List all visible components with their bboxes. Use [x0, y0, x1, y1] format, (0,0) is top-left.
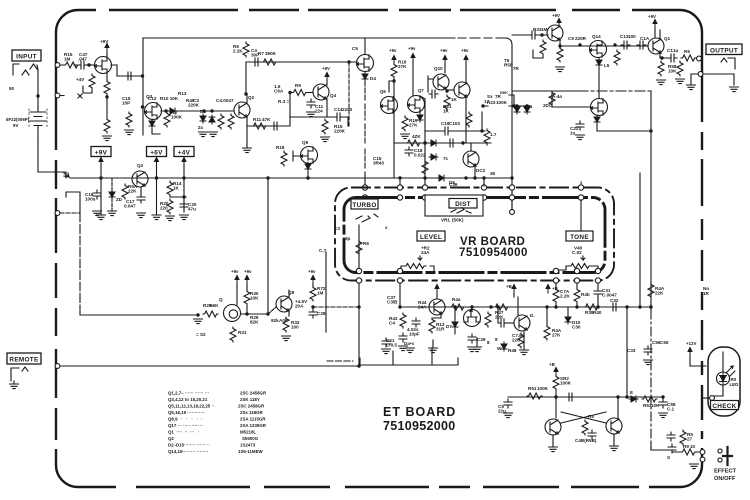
svg-text:7c: 7c [443, 156, 449, 161]
junction Q10 Q11 [445, 89, 448, 92]
label box REMOTE [7, 353, 41, 364]
diode D5 [437, 175, 446, 181]
label box DIST [449, 199, 477, 209]
svg-text:ON/OFF: ON/OFF [714, 476, 736, 482]
svg-text:C5: C5 [352, 46, 358, 51]
pad tone bot2 a [574, 268, 579, 273]
svg-text:+4V: +4V [178, 150, 191, 157]
wire Q11 collector [465, 63, 467, 82]
diode D5b [305, 162, 311, 171]
diode D14 [596, 58, 602, 67]
junction remote turbo [357, 364, 360, 367]
label box CHECK [711, 401, 739, 410]
svg-text:100u: 100u [85, 197, 96, 202]
svg-text:C33: C33 [627, 348, 636, 353]
wire Q8 collector [288, 290, 290, 297]
svg-text:100K: 100K [496, 100, 508, 105]
label box +6V [147, 147, 167, 157]
svg-text:C3: C3 [334, 226, 340, 231]
svg-text:+9V: +9V [100, 39, 109, 44]
capacitor C2 [125, 72, 134, 80]
wire Q2 emitter link [247, 117, 290, 126]
supply arrow q22 [554, 368, 558, 377]
capacitor C29 [468, 334, 476, 343]
wire r47 stub [546, 307, 548, 325]
wire +4V hook [83, 86, 92, 93]
capacitor C38 [412, 318, 420, 327]
junction out row b [613, 43, 616, 46]
wire q18 stub [471, 307, 473, 310]
junction tone b [575, 305, 578, 308]
svg-text:EFFECT: EFFECT [714, 469, 737, 475]
resistor R10 [228, 114, 234, 129]
junction mid row b [210, 109, 213, 112]
capacitor C20 [180, 201, 188, 210]
resistor R35 [614, 50, 620, 65]
svg-text:L5: L5 [604, 63, 610, 68]
svg-text:me:: me: [500, 90, 509, 95]
pad dist left a [422, 185, 427, 190]
junction out row a [578, 43, 581, 46]
svg-text:27K: 27K [409, 123, 418, 128]
node output contact b [698, 72, 703, 77]
resistor R31 [230, 327, 236, 342]
svg-text:R4a: R4a [452, 297, 461, 302]
svg-text:C4: C4 [389, 321, 395, 326]
svg-text:2Sx 118GR: 2Sx 118GR [240, 410, 264, 415]
wire pot b [246, 283, 248, 290]
wire +4V column [183, 164, 185, 212]
svg-text:1M: 1M [317, 291, 324, 296]
wire long vertical output net [650, 91, 652, 310]
transistor Q7 [408, 96, 425, 113]
wire emitter row [290, 116, 334, 118]
wire Q4 base [308, 92, 313, 94]
svg-text:R5: R5 [684, 49, 690, 54]
svg-text:2200: 2200 [342, 107, 353, 112]
ground row e [520, 350, 529, 355]
svg-text:REMOTE: REMOTE [9, 357, 39, 364]
svg-text:24A: 24A [418, 305, 427, 310]
wire Q5 drain [364, 38, 366, 55]
ground C11 [307, 112, 316, 117]
resistor R24 [406, 140, 421, 146]
junction q23 [616, 395, 619, 398]
svg-text:TURBO: TURBO [352, 202, 376, 209]
pad tone bot3 b [595, 278, 600, 283]
capacitor C16 [93, 190, 101, 199]
svg-text:7510952000: 7510952000 [383, 419, 456, 433]
diode D12 [501, 342, 507, 351]
output jack J2 [721, 58, 735, 69]
wire d11 stub [567, 307, 569, 315]
wire row e stub [523, 332, 525, 350]
wire Q9 gate [293, 151, 300, 161]
svg-text:2SA 1115GR: 2SA 1115GR [240, 417, 266, 422]
svg-text:Q1,2,7− ······ ······ ···: Q1,2,7− ······ ······ ··· [168, 391, 209, 396]
wire ET outline left edge [142, 38, 144, 135]
svg-text:7R: 7R [513, 66, 520, 71]
resistor R9 [218, 114, 224, 129]
wire tone drop b [576, 284, 578, 308]
junction tone c [596, 305, 599, 308]
svg-text:R9: R9 [683, 444, 689, 449]
pad dist wiper b [509, 195, 514, 200]
capacitor C44 [644, 346, 652, 355]
supply arrow +6V [155, 158, 159, 167]
supply arrow led [688, 348, 692, 357]
wire Q4 emitter [326, 99, 328, 117]
wire row c stub [432, 340, 434, 348]
wire bus hook tick [64, 173, 69, 177]
svg-text:C103: C103 [449, 121, 460, 126]
diode D13 [629, 396, 638, 402]
svg-text:C/0.5: C/0.5 [386, 343, 397, 348]
capacitor C32 [610, 303, 619, 311]
ground q23 emitter [610, 446, 619, 451]
node dist wiper contact [510, 210, 515, 215]
resistor R19 [402, 116, 408, 131]
battery BT1 6F22 9V [30, 108, 46, 140]
wire Q1 out to board edge [111, 65, 142, 76]
wire remote gnd stub [13, 381, 15, 384]
svg-text:Q9: Q9 [302, 140, 309, 145]
resistor R41 [356, 240, 362, 255]
svg-text:24A: 24A [421, 250, 430, 255]
pad level bot b [397, 278, 402, 283]
resistor R26 [422, 160, 428, 175]
svg-text:(50K): (50K) [452, 218, 464, 223]
node bus B supply rail [70, 177, 512, 179]
transistor Q19 [514, 315, 530, 331]
svg-text:x: x [385, 225, 388, 230]
wire sw line [651, 443, 672, 450]
wire turbo to foot [358, 284, 360, 367]
wire Q2 emitter [247, 117, 252, 126]
svg-text:W: W [497, 346, 502, 351]
junction mid row a [202, 109, 205, 112]
ground D3 [199, 132, 208, 137]
wire input tip to C1 [60, 64, 78, 66]
svg-text:27K: 27K [552, 333, 561, 338]
wire sw line b [672, 451, 700, 453]
junction Q9 bus [306, 176, 309, 179]
svg-text:R5: R5 [588, 414, 594, 419]
resistor R45 [429, 318, 435, 333]
ground C16 [93, 211, 102, 216]
capacitor C10 [271, 122, 280, 130]
svg-text:1u: 1u [570, 131, 576, 136]
junction q13 emitter node [558, 44, 561, 47]
wire Q12 emitter [474, 165, 476, 178]
svg-text:LED: LED [730, 382, 739, 387]
svg-text:2x: 2x [198, 125, 204, 130]
wire pot a [236, 283, 238, 305]
svg-text:47K: 47K [262, 117, 271, 122]
wire dist wiper stub [511, 200, 513, 209]
junction board edge 2 [141, 105, 144, 108]
svg-text:0.022: 0.022 [414, 153, 426, 158]
svg-text:D4: D4 [370, 76, 376, 81]
node output contact a [697, 56, 702, 61]
pad dist left b [422, 195, 427, 200]
svg-text:27: 27 [687, 437, 693, 442]
remote jack J3 [11, 367, 28, 381]
resistor R51 [648, 283, 654, 298]
ground D4 [209, 132, 218, 137]
svg-text:VR1: VR1 [441, 218, 450, 223]
wire Q1 drain [106, 52, 108, 57]
svg-text:Q2: Q2 [168, 436, 174, 441]
svg-text:1K: 1K [443, 109, 450, 114]
capacitor C41 [566, 393, 575, 401]
svg-text:LEVEL: LEVEL [420, 234, 442, 241]
resistor R33 [540, 40, 546, 55]
junction level feed [398, 176, 401, 179]
svg-text:D.: D. [530, 313, 535, 318]
svg-text:TONE: TONE [570, 234, 589, 241]
transistor Q23 [606, 418, 622, 434]
junction w131 [480, 129, 483, 132]
svg-text:R18: R18 [276, 145, 285, 150]
wire bottom dash stub [327, 360, 353, 362]
resistor R9b [292, 90, 307, 96]
ground remote jack [10, 384, 19, 389]
wire out row [560, 45, 648, 47]
wire main lower signal [400, 306, 651, 308]
resistor R21 [444, 95, 450, 110]
transistor Q9 [301, 147, 318, 164]
svg-text:224: 224 [315, 109, 323, 114]
supply arrow pot b [245, 276, 249, 285]
svg-text:C6A: C6A [274, 89, 284, 94]
wire q23 emitter [613, 434, 615, 446]
DIST sub-board rect [425, 195, 483, 216]
junction clip row [461, 141, 464, 144]
svg-text:R58: R58 [504, 63, 513, 68]
junction w106 a [481, 104, 484, 107]
node input tip contact [55, 63, 60, 68]
svg-text:100: 100 [628, 34, 636, 39]
capacitor C1 [78, 61, 87, 69]
svg-text:36: 36 [490, 171, 496, 176]
ground R37 [676, 79, 685, 84]
svg-text:ET BOARD: ET BOARD [383, 405, 456, 419]
capacitor C18 [405, 147, 413, 156]
junction long vert [266, 312, 269, 315]
wire link w106 [483, 95, 514, 106]
svg-text:Q10: Q10 [434, 66, 443, 71]
wire flip cross a [561, 412, 606, 423]
junction q15 emitter [660, 56, 663, 59]
capacitor C24 [637, 41, 646, 49]
wire q17 collector [436, 292, 438, 298]
wire Q10 emitter link [446, 89, 454, 91]
svg-text:R31: R31 [238, 330, 247, 335]
wire flip cross b [561, 412, 606, 423]
svg-text:2SK 118Y: 2SK 118Y [240, 397, 260, 402]
svg-text:R40: R40 [593, 310, 602, 315]
svg-text:10: 10 [690, 444, 696, 449]
wire et low signal [508, 396, 663, 398]
junction dist feed [423, 141, 426, 144]
transistor Q2 [234, 102, 250, 118]
wire q15 emitter node [660, 53, 668, 58]
resistor R17 [104, 80, 110, 95]
capacitor C19 [442, 127, 451, 135]
ground pot left [194, 319, 203, 324]
svg-text:C.02: C.02 [572, 250, 582, 255]
wire q22 emitter [552, 435, 554, 447]
pad level top b [397, 195, 402, 200]
resistor R39 [549, 91, 555, 106]
junction q13 base [540, 33, 543, 36]
wire tone drop a [555, 284, 557, 308]
wire tone return vertical [639, 173, 641, 307]
svg-text:27K: 27K [398, 64, 407, 69]
wire feedback dashes [348, 62, 350, 126]
svg-text:C4B(R5B): C4B(R5B) [575, 438, 597, 443]
wire mute column [79, 213, 81, 315]
junction buffer out [649, 129, 652, 132]
resistor R54 [122, 184, 128, 199]
ground q22 emitter [549, 447, 558, 452]
svg-text:Q2: Q2 [137, 163, 144, 168]
resistor R11 [252, 123, 267, 129]
svg-text:A0k: A0k [279, 318, 288, 323]
diode D11 [565, 315, 571, 324]
svg-text:C28: C28 [317, 311, 326, 316]
svg-text:D8: D8 [200, 109, 206, 114]
capacitor C42 [588, 430, 596, 439]
ground C40 [504, 413, 513, 418]
junction low node [182, 195, 185, 198]
junction bus 512 [510, 176, 513, 179]
wire D16 stub [111, 178, 113, 211]
resistor R46s series [494, 304, 509, 310]
wire q16 gate [552, 91, 590, 107]
resistor R53 [553, 375, 559, 390]
svg-text:8: 8 [495, 337, 498, 342]
wire low node [170, 196, 186, 198]
pad tone bot1 a [553, 268, 558, 273]
resistor R16b [391, 63, 397, 78]
svg-text:+9v: +9v [231, 269, 239, 274]
wire bottom link u [360, 349, 458, 365]
svg-text:1S5-11MEW: 1S5-11MEW [238, 449, 264, 454]
svg-text:22K: 22K [655, 291, 664, 296]
svg-text:Q1: Q1 [664, 36, 671, 41]
svg-text:C1A: C1A [640, 36, 650, 41]
label box OUTPUT [706, 44, 742, 55]
resistor R38 [681, 55, 696, 61]
ground C44 [644, 360, 653, 365]
svg-text:R.3 =: R.3 = [278, 99, 289, 104]
LED arrows [726, 366, 735, 376]
ground +9V column [97, 215, 106, 220]
input jack J1 [13, 64, 38, 75]
svg-text:C12: C12 [148, 96, 157, 101]
transistor Q5 [357, 55, 374, 72]
EFFECT switch S4 [718, 449, 722, 453]
resistor R46 [485, 312, 491, 327]
svg-text:+9v: +9v [461, 48, 469, 53]
svg-text:220K: 220K [334, 129, 346, 134]
transistor Q16 [591, 99, 608, 116]
wire S1 hook [66, 192, 80, 213]
capacitor C17 [137, 194, 145, 203]
wire w131 up [481, 112, 483, 131]
junction r46 [489, 305, 492, 308]
transistor Q6 [381, 97, 398, 114]
resistor R32 [283, 317, 289, 332]
wire Q4 collector [326, 80, 328, 85]
junction gate Q1 [87, 63, 90, 66]
resistor R16 [89, 74, 95, 89]
svg-text:Q17 ··· ····· ····· ··: Q17 ··· ····· ····· ·· [168, 423, 203, 428]
ground R56 [166, 216, 175, 221]
wire mid row [161, 110, 234, 112]
wire ring stub [60, 94, 82, 98]
ground +6V column [152, 215, 161, 220]
ground Q1 source [103, 136, 112, 141]
diode D7 [429, 140, 438, 146]
wire chain vertical right [650, 310, 652, 450]
svg-text:3R43: 3R43 [373, 161, 384, 166]
resistor R25 [484, 129, 490, 144]
pad tone bot3 a [595, 268, 600, 273]
svg-text:E: E [630, 390, 633, 395]
svg-text:C55: C55 [660, 340, 669, 345]
diode D3 [200, 114, 206, 123]
node sw contact b [700, 457, 705, 462]
resistor R18 [281, 151, 287, 166]
svg-text:1.7: 1.7 [490, 132, 497, 137]
capacitor C39 [382, 338, 390, 347]
junction top signal [347, 60, 350, 63]
resistor R72 [310, 286, 316, 301]
wire q16 source [597, 124, 651, 131]
supply arrow Q11 [464, 56, 468, 65]
svg-text:Q2: Q2 [248, 95, 255, 100]
wire tone feed [580, 200, 582, 231]
svg-text:+9V: +9V [95, 150, 108, 157]
pad dist right a [481, 185, 486, 190]
wire base dashes [268, 307, 276, 314]
wire C14 stub [343, 117, 348, 126]
ground R34 [556, 67, 565, 72]
svg-text:2SC 2458GR: 2SC 2458GR [238, 404, 265, 409]
svg-text:Q14: Q14 [592, 34, 601, 39]
pad turbo top b [362, 195, 367, 200]
resistor R58b [680, 430, 686, 445]
wire level feed [399, 178, 401, 185]
wire q13 emitter [559, 40, 561, 47]
wire q23 collector [617, 397, 619, 418]
svg-text:Da•s: Da•s [404, 341, 414, 346]
svg-text:220R: 220R [575, 36, 587, 41]
wire top signal [246, 61, 357, 63]
wire meter column [312, 283, 314, 286]
node: ET board outline rail +9V top [143, 38, 512, 212]
svg-text:1M: 1M [541, 27, 548, 32]
wire c30 up [497, 307, 499, 323]
wire +6V column [156, 164, 158, 215]
ground C43 [659, 413, 668, 418]
resistor R7 [262, 59, 277, 65]
VR board outline inner [344, 198, 605, 273]
svg-text:Q14,15········· ········: Q14,15········· ········ [168, 449, 208, 454]
